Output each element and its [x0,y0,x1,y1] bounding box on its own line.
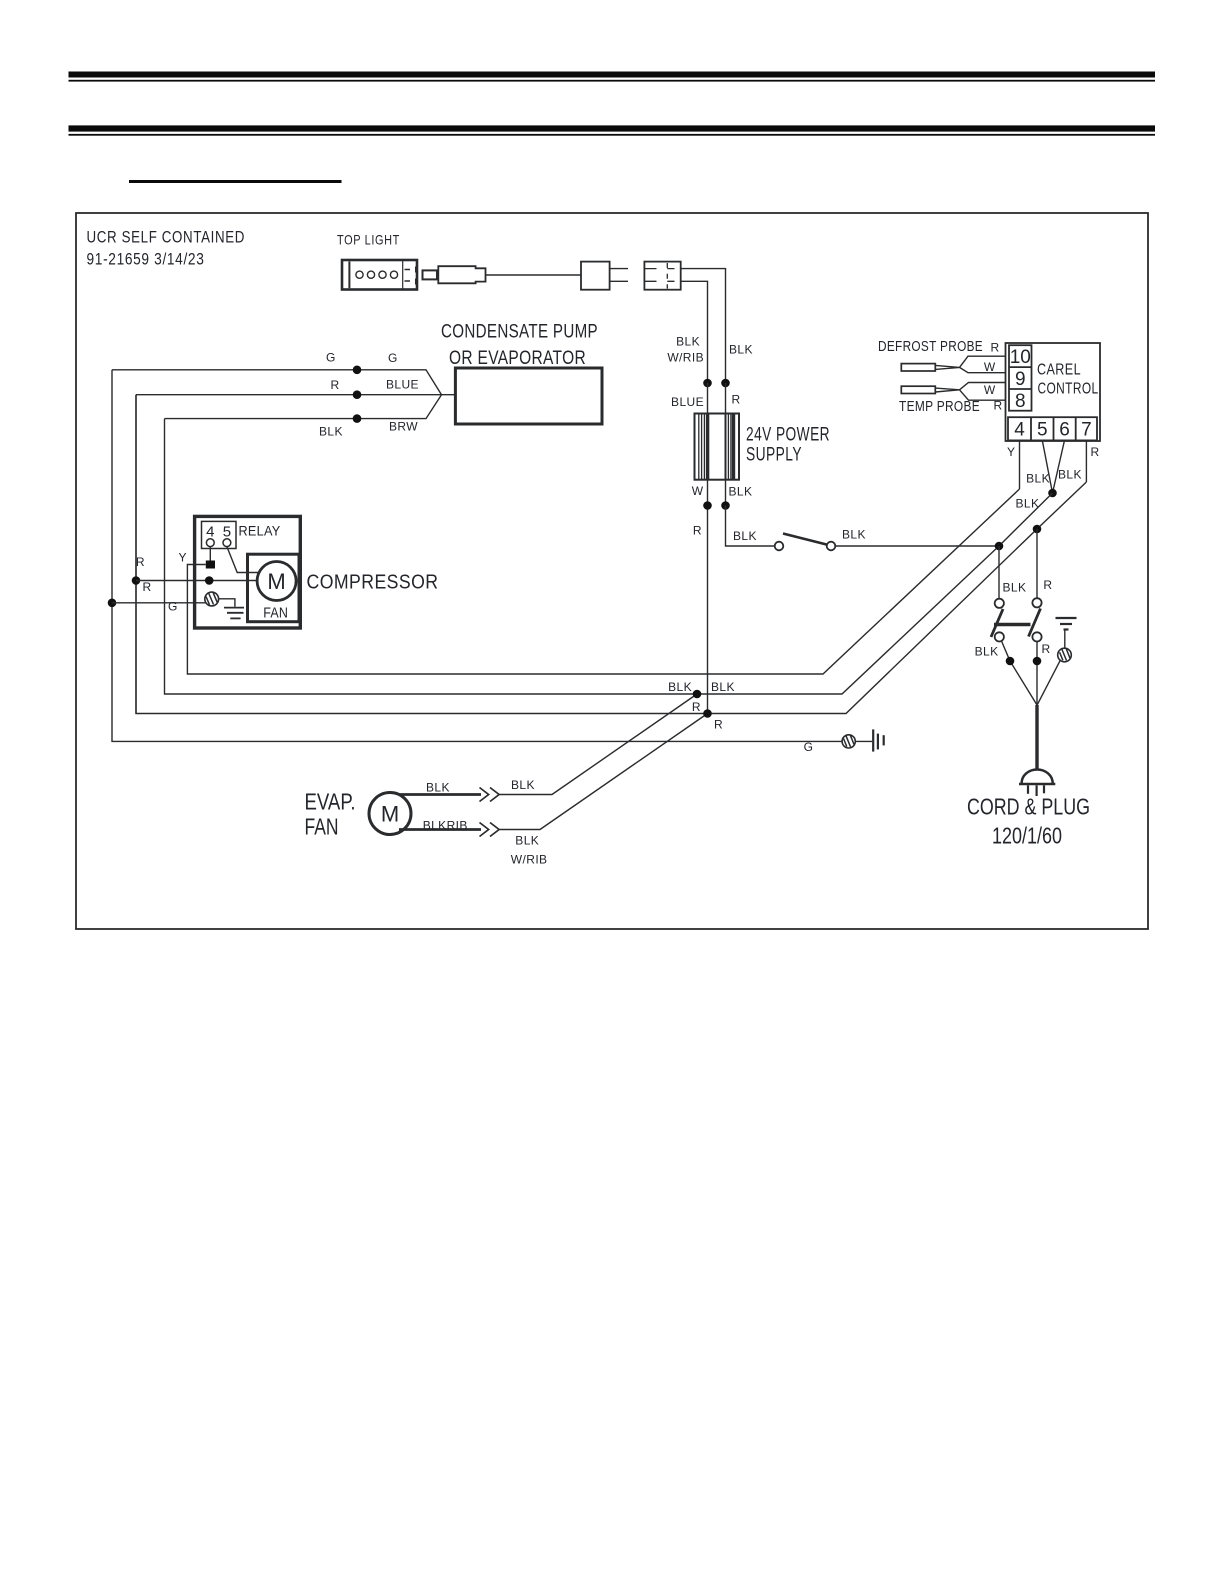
svg-text:BLUE: BLUE [386,378,419,392]
splice dot BLK [353,414,362,423]
svg-text:UCR SELF CONTAINED: UCR SELF CONTAINED [87,228,246,247]
evap fan wire BLKRIB [399,828,481,831]
svg-text:BLK: BLK [515,834,539,848]
svg-text:R: R [994,399,1003,413]
svg-text:4: 4 [206,523,214,540]
svg-text:DEFROST PROBE: DEFROST PROBE [878,338,983,355]
temp probe [901,383,1005,401]
title text [87,228,246,269]
wire to BLK node [500,694,698,795]
compressor box [195,516,301,628]
wire switch to BLK node [835,545,999,547]
svg-text:R: R [1042,642,1051,656]
wire R to dpst switch [1036,529,1038,602]
wire connector to node BLK [681,269,726,383]
label CAREL CONTROL [1037,362,1099,398]
evap fan wire BLK [399,793,481,796]
svg-text:BRW: BRW [389,420,418,434]
svg-text:RELAY: RELAY [239,524,281,539]
splice dot [703,501,712,510]
svg-text:CORD & PLUG: CORD & PLUG [967,794,1090,820]
wire carel pin7 R [1085,440,1087,482]
svg-text:R: R [692,700,701,714]
label BLK W/RIB [667,335,704,365]
svg-text:SUPPLY: SUPPLY [746,445,802,466]
svg-text:BLK: BLK [975,645,999,659]
svg-text:R: R [1043,578,1052,592]
splice dot [721,501,730,510]
svg-text:R: R [1091,445,1100,459]
ground symbol rotated [873,729,884,751]
svg-text:BLK: BLK [842,528,866,542]
svg-text:5: 5 [1037,420,1048,441]
junction dot A BLK [693,690,702,699]
svg-text:G: G [326,351,336,365]
fan inner box [248,554,300,622]
svg-text:BLK: BLK [711,680,735,694]
pin labels 10 9 8 [1010,347,1031,412]
junction dot B R [703,709,712,718]
evap fan labels [423,778,548,867]
wire screw to plug [1037,660,1060,704]
junction dot BLK node [995,542,1004,551]
svg-text:R: R [714,718,723,732]
junction dot BLK [1006,657,1015,666]
ground symbol compressor [224,608,244,619]
compressor motor M [257,562,296,601]
wire Y run: pin4 diagonal, bottom run, up to relay [187,489,1019,674]
labels BLK BLK at node A [668,680,735,732]
svg-text:10: 10 [1010,347,1031,368]
svg-text:5: 5 [223,523,231,540]
svg-text:BLK: BLK [1003,581,1027,595]
wire R into compressor [136,580,258,582]
svg-text:TOP LIGHT: TOP LIGHT [337,232,400,248]
Y terminal square [206,561,215,569]
dpst power switch [991,598,1042,641]
svg-text:7: 7 [1081,420,1092,441]
defrost probe [901,356,1005,373]
splice dot R [353,390,362,399]
diagram border frame [76,213,1148,929]
ground screw G line [842,735,855,748]
svg-text:Y: Y [178,551,186,565]
connector 2 pins [644,263,674,289]
svg-text:BLK: BLK [676,335,700,349]
wire R run: pin7 diagonal, bottom run, up left side [136,395,1086,714]
CAREL terminal row 4 5 6 7 [1008,417,1097,440]
wire G left vertical and bottom run [112,370,842,742]
evap fan motor [369,793,411,835]
label CONDENSATE PUMP OR EVAPORATOR [441,322,598,370]
chassis ground right [1056,618,1077,648]
svg-text:G: G [388,351,398,365]
svg-text:120/1/60: 120/1/60 [992,823,1062,849]
CAREL control box [1006,343,1101,441]
wire switch to plug R [1036,642,1038,706]
pin labels 4 5 6 7 [1014,420,1091,441]
svg-text:W: W [692,484,704,498]
heading underline [129,180,342,183]
wire carel pin5 BLK [1042,440,1052,493]
wire labels G G R BLUE BLK BRW [319,351,419,439]
svg-text:9: 9 [1015,369,1026,390]
24V power supply transformer [695,414,740,480]
svg-text:M: M [267,569,285,594]
svg-text:24V POWER: 24V POWER [746,425,830,446]
header double rule top [69,72,1156,136]
connector block 2 [644,262,680,290]
svg-text:6: 6 [1059,420,1070,441]
CAREL terminal column 10 9 8 [1009,345,1032,411]
compressor ground screw [205,592,219,606]
wire relay pin5 to motor [227,547,260,573]
svg-text:W/RIB: W/RIB [667,351,704,365]
relay box [202,521,237,548]
svg-text:BLK: BLK [1016,497,1040,511]
wire relay pin4 to Y terminal [209,547,211,561]
svg-text:BLKRIB: BLKRIB [423,819,468,833]
connector chevrons [480,823,500,837]
svg-text:R: R [991,341,1000,355]
wire BLK run: pins 5+6 diagonal through switch node, bottom run, up left side [165,419,1053,694]
wire R left vertical [135,395,137,714]
svg-text:CONDENSATE PUMP: CONDENSATE PUMP [441,322,598,343]
svg-text:4: 4 [1014,420,1025,441]
svg-text:8: 8 [1015,391,1026,412]
wire switch to plug BLK [1002,641,1038,705]
wire BLK to pump [165,395,442,419]
svg-text:R: R [331,378,340,392]
svg-text:BLK: BLK [511,778,535,792]
wire screw to ground [855,740,872,742]
junction dot R [132,576,141,585]
svg-text:BLK: BLK [668,680,692,694]
connector chevrons [480,788,500,802]
wire top light to connector [486,274,582,276]
svg-text:COMPRESSOR: COMPRESSOR [307,572,439,594]
wire screw to ground [219,599,235,607]
splice dot [721,379,730,388]
junction dot R [1033,657,1042,666]
wire BLK to dpst switch [998,546,1000,603]
toggle switch [775,534,836,551]
label CORD & PLUG 120/1/60 [967,794,1090,849]
cord and plug [1019,705,1055,796]
label EVAP. FAN [305,789,356,840]
wire BLUE down through transformer [707,383,709,714]
svg-text:TEMP PROBE: TEMP PROBE [899,398,980,415]
wire R to pump [136,394,455,396]
relay pin labels 4 5 [206,523,231,540]
wire to R node [500,714,708,830]
svg-text:CONTROL: CONTROL [1038,381,1099,398]
svg-text:G: G [804,740,813,754]
svg-text:W: W [984,360,996,374]
junction dot R terminal [205,576,214,585]
svg-text:BLK: BLK [426,781,450,795]
wire carel pin6 BLK [1053,440,1065,493]
wire R down through transformer [725,383,727,506]
svg-text:BLK: BLK [729,485,753,499]
top light fixture [342,260,417,290]
splice dot G [353,366,362,375]
svg-text:G: G [168,600,177,614]
connector block 1 [581,262,610,290]
junction dot pins 5+6 [1048,489,1057,498]
wire G to pump [112,370,442,395]
svg-text:W/RIB: W/RIB [511,853,548,867]
junction dot R node [1033,525,1042,534]
svg-text:W: W [984,383,996,397]
ground screw right [1058,648,1072,662]
svg-text:BLK: BLK [729,343,753,357]
wire BLK to toggle switch [726,506,775,547]
svg-text:OR EVAPORATOR: OR EVAPORATOR [449,348,586,369]
wire carel pin4 Y [1019,440,1021,489]
relay pin circles [206,539,214,547]
svg-text:EVAP.: EVAP. [305,789,356,815]
svg-text:CAREL: CAREL [1037,362,1081,379]
svg-text:FAN: FAN [305,814,339,840]
svg-text:BLK: BLK [1058,468,1082,482]
svg-text:R: R [136,555,145,569]
connector stubs [610,269,628,282]
svg-text:BLK: BLK [1026,472,1050,486]
svg-text:R: R [693,524,702,538]
svg-text:M: M [381,802,399,827]
condensate pump box [455,368,602,424]
top light cord plug [423,266,486,283]
junction dot G [108,599,117,608]
wire connector to node BLK W/RIB [681,281,708,383]
svg-text:BLK: BLK [733,529,757,543]
svg-text:91-21659 3/14/23: 91-21659 3/14/23 [87,250,205,269]
svg-text:FAN: FAN [263,604,288,621]
svg-text:BLUE: BLUE [671,395,704,409]
svg-text:R: R [732,393,741,407]
svg-text:BLK: BLK [319,425,343,439]
svg-text:R: R [143,580,152,594]
svg-text:Y: Y [1007,445,1015,459]
wire G into compressor [112,602,206,604]
splice dot [703,379,712,388]
label 24V POWER SUPPLY [746,425,830,466]
